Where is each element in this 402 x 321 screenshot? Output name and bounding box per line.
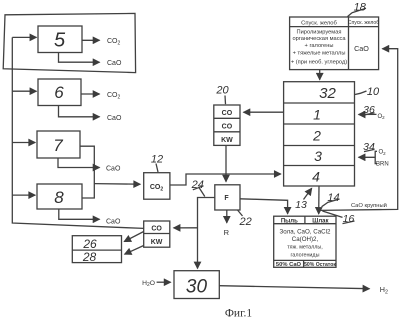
wire box8 CaO out: [59, 209, 100, 219]
svg-text:Шлак: Шлак: [312, 218, 328, 224]
tick label 10: [355, 91, 367, 95]
tick label 14: [322, 199, 340, 207]
unit CO2 box 12: [144, 173, 170, 200]
svg-text:H2: H2: [380, 285, 388, 295]
reactor column 10: [284, 82, 355, 186]
svg-text:тяж. металлы,: тяж. металлы,: [287, 245, 323, 251]
arrow O2 into cell 1: [359, 113, 377, 115]
svg-text:7: 7: [53, 136, 63, 155]
tick label 36: [364, 113, 375, 115]
unit F box: [215, 185, 240, 210]
svg-text:CaO: CaO: [107, 115, 122, 122]
svg-text:13: 13: [295, 199, 307, 211]
svg-text:CO: CO: [151, 226, 162, 233]
arrow label 13: [304, 188, 312, 199]
svg-text:24: 24: [191, 179, 204, 191]
arrow O2 BRN into cell 3: [359, 156, 376, 158]
svg-text:O2: O2: [378, 114, 386, 120]
unit box 30: [174, 271, 219, 299]
svg-text:O2: O2: [379, 150, 387, 156]
svg-text:Спуск. желоб: Спуск. желоб: [348, 20, 379, 26]
svg-text:32: 32: [319, 85, 336, 102]
svg-text:10: 10: [367, 86, 380, 98]
boxes 26 28: [72, 236, 121, 263]
svg-text:Ca(OH)2,: Ca(OH)2,: [292, 236, 319, 243]
wire box5 CO2 out: [82, 39, 100, 41]
box 6: [38, 79, 81, 106]
svg-text:26: 26: [82, 237, 97, 251]
svg-text:CO: CO: [222, 110, 233, 117]
svg-text:BRN: BRN: [376, 161, 389, 167]
table dust slag: [274, 216, 336, 267]
svg-text:CO: CO: [222, 123, 233, 130]
svg-text:34: 34: [363, 141, 375, 153]
svg-text:4: 4: [312, 169, 320, 185]
svg-text:CO2: CO2: [150, 184, 164, 193]
svg-text:CaO: CaO: [107, 60, 122, 67]
wire box6 CO2 out: [81, 93, 100, 95]
svg-text:CaO: CaO: [106, 218, 121, 225]
bracket O2 BRN: [375, 151, 377, 163]
svg-text:CaO крупный: CaO крупный: [351, 202, 387, 209]
arrow KW to box 28: [125, 246, 144, 255]
svg-text:6: 6: [54, 83, 64, 102]
box 5: [38, 26, 82, 53]
svg-text:Пиролизируемая: Пиролизируемая: [297, 29, 342, 35]
wire box7 CaO out: [58, 159, 100, 168]
svg-text:28: 28: [82, 250, 97, 264]
tick label 24: [193, 186, 205, 197]
boxes CO KW bottom: [144, 221, 170, 247]
svg-text:20: 20: [215, 85, 229, 97]
tick label 34: [364, 149, 375, 151]
svg-text:+ тяжелые металлы: + тяжелые металлы: [293, 51, 346, 57]
tick label 12: [156, 164, 158, 173]
svg-text:Фиг.1: Фиг.1: [225, 308, 253, 320]
svg-text:KW: KW: [221, 137, 233, 144]
wire box6 CaO out: [59, 106, 100, 117]
svg-text:Зола, CaO, CaCl2: Зола, CaO, CaCl2: [280, 228, 331, 235]
wire box5 CaO out: [59, 53, 100, 63]
box 8: [37, 184, 82, 209]
arrow R out of F: [226, 210, 228, 223]
arrow 18 into column: [319, 70, 321, 80]
arrow gas down into F: [225, 145, 227, 181]
arrow branch to CO box: [174, 227, 198, 229]
tick label 16: [322, 211, 354, 224]
svg-text:12: 12: [151, 154, 163, 166]
svg-text:8: 8: [54, 188, 64, 207]
svg-text:18: 18: [354, 2, 367, 14]
svg-text:CaO: CaO: [354, 44, 369, 53]
box CO CO KW 20: [214, 105, 240, 145]
svg-text:H2O: H2O: [142, 280, 155, 288]
arrow column to CO box: [244, 111, 284, 113]
arrow into box 6: [12, 90, 36, 92]
svg-text:Пыль: Пыль: [281, 218, 298, 224]
svg-text:16: 16: [343, 213, 355, 225]
svg-text:F: F: [224, 195, 229, 202]
svg-text:+ (при необ. углерод): + (при необ. углерод): [291, 59, 347, 65]
svg-text:14: 14: [327, 192, 339, 204]
wire CaO recycle right: [319, 49, 398, 211]
enclosure rect around box 5: [3, 13, 135, 72]
svg-text:5: 5: [54, 30, 66, 52]
svg-text:3: 3: [314, 148, 322, 164]
arrow H2 output: [219, 286, 369, 289]
svg-text:CO2: CO2: [107, 92, 121, 101]
arrow into box 7: [12, 142, 35, 144]
arrow into box 5: [12, 36, 36, 38]
tick label 20: [224, 96, 227, 105]
svg-text:CO2: CO2: [107, 38, 121, 47]
tick label 18: [348, 8, 367, 16]
wire gas to CO2 unit 12: [94, 183, 140, 186]
tick label 22: [238, 210, 243, 216]
svg-text:органическая масса: органическая масса: [292, 36, 346, 42]
wire F to scrubber 30: [198, 198, 215, 269]
feed box 18: [290, 17, 379, 70]
svg-text:KW: KW: [151, 239, 163, 246]
svg-text:R: R: [224, 228, 230, 237]
wire F to dust bin: [240, 199, 288, 214]
arrow into box 8: [12, 194, 35, 196]
wire box7 and box8 gas collector: [80, 146, 94, 198]
arrow H2O into 30: [157, 281, 171, 283]
box 7: [37, 131, 80, 158]
svg-text:36: 36: [363, 104, 375, 116]
arrow CO to box 26: [124, 232, 144, 242]
svg-text:30: 30: [186, 277, 208, 298]
svg-text:1: 1: [313, 107, 321, 123]
svg-text:2: 2: [312, 128, 321, 144]
svg-text:CaO: CaO: [106, 166, 121, 173]
wire CO2 unit to column cell 4: [170, 174, 281, 185]
svg-text:+ галогены: + галогены: [305, 43, 334, 49]
svg-text:50% CaO: 50% CaO: [276, 262, 302, 268]
svg-text:22: 22: [239, 216, 252, 228]
svg-text:Спуск. желоб: Спуск. желоб: [301, 20, 337, 26]
svg-text:галогениды: галогениды: [291, 253, 320, 259]
wire left trunk: [12, 37, 143, 228]
arrow column bottom to slag: [318, 186, 320, 214]
svg-text:50% Остаток: 50% Остаток: [304, 262, 336, 268]
